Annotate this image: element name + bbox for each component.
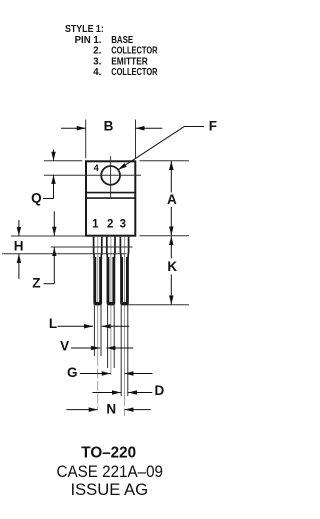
svg-text:A: A [167,192,177,207]
svg-text:CASE 221A–09: CASE 221A–09 [57,462,164,481]
dimension K top arrow [170,236,172,258]
lead 2 extended centerline solid part [110,305,112,368]
svg-text:H: H [14,239,24,254]
mounting hole [101,166,120,185]
dimension D right arrow [128,392,152,394]
lead 2 extended centerline dashed part [110,368,112,375]
lead 3 centerline [124,237,126,303]
svg-text:B: B [104,118,114,133]
lead 2 thin continuation [108,305,115,368]
dimension B left arrow [61,127,86,129]
lead 3 extended centerline solid part [124,305,126,396]
svg-text:PIN 1.: PIN 1. [75,35,102,46]
dimension V right arrow [106,347,133,349]
dimension Z bottom arrow [53,247,55,284]
bottom edge extension line right [140,235,190,237]
dimension N right arrow [125,409,151,411]
dimension H top arrow [18,220,20,236]
svg-text:V: V [60,339,69,354]
dimension A bottom arrow [170,207,172,236]
svg-text:G: G [67,365,78,380]
dimension D left arrow [92,392,121,394]
style note text block [65,24,158,78]
dimension Q bottom arrow [53,175,55,199]
svg-text:ISSUE AG: ISSUE AG [71,480,149,499]
dimension N left arrow [66,409,97,411]
svg-text:TO–220: TO–220 [81,444,136,461]
lead end extension line [128,304,189,306]
dimension L right arrow [102,325,129,327]
dimension B extension line right [135,120,137,159]
svg-text:2.: 2. [93,46,102,57]
lead 1 extended centerline dashed part [97,356,99,409]
lead 1 centerline [97,237,99,303]
lead shoulder reference line [51,246,133,248]
top edge extension line right [140,160,190,162]
svg-text:4.: 4. [93,67,102,78]
svg-text:EMITTER: EMITTER [111,56,148,67]
dimension Z leader [44,283,55,285]
dimension Z top arrow [53,211,55,235]
svg-text:Q: Q [31,190,42,205]
lead 1 thin continuation [94,305,101,356]
svg-text:Z: Z [32,276,40,291]
svg-text:N: N [106,401,116,416]
dimension A top arrow [170,161,172,193]
dimension G left arrow [80,373,111,375]
hole horizontal centerline [44,174,141,176]
package body outline [86,161,135,235]
lead 3 thin continuation [121,305,128,396]
lead 1 outline [94,237,102,258]
dimension B right arrow [136,127,163,129]
svg-text:D: D [155,383,165,398]
hole vertical centerline [110,156,112,199]
svg-text:K: K [167,259,177,274]
svg-text:1: 1 [92,219,99,231]
dimension H bottom arrow [18,254,20,279]
lead 1 extended centerline solid part [97,305,99,356]
svg-text:COLLECTOR: COLLECTOR [111,46,158,57]
svg-text:BASE: BASE [111,35,133,46]
lead 3 bottom cap [120,302,128,305]
dimension L left arrow [58,325,94,327]
dimension Q top arrow [53,150,55,161]
lead 3 outline [120,237,128,258]
lead 2 centerline [110,237,112,303]
dimension F leader [118,127,204,170]
dimension V left arrow [71,347,100,349]
svg-text:3: 3 [120,219,126,231]
lead 2 bottom cap [107,302,115,305]
bottom edge extension line left [11,235,86,237]
seating plane line [2,253,127,255]
tab groove line 2 [86,197,135,199]
svg-text:F: F [209,119,217,134]
top edge extension line left [44,160,82,162]
dimension G right arrow [125,373,153,375]
svg-text:2: 2 [107,219,113,231]
svg-text:COLLECTOR: COLLECTOR [111,67,158,78]
svg-text:4: 4 [94,163,99,173]
svg-text:3.: 3. [93,56,102,67]
dimension Q leader [43,198,54,200]
svg-text:STYLE 1:: STYLE 1: [65,24,104,35]
dimension K bottom arrow [170,275,172,305]
lead 1 bottom cap [94,302,102,305]
tab groove line 1 [86,192,135,194]
lead 3 extended centerline dashed part [124,396,126,416]
lead 2 outline [107,237,115,258]
svg-text:L: L [49,316,57,331]
dimension B extension line left [85,120,87,159]
